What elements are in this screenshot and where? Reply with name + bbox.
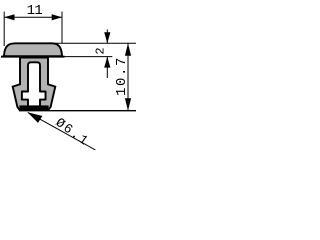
cap top extension line [52,42,136,44]
cap bottom extension line [62,56,112,58]
dimension 11: right extension line [61,12,63,44]
dimension 11: dimension line [4,16,62,18]
dimension 11: left extension line [3,12,5,47]
dimension 10.7: dimension line [127,43,129,110]
rivet cap dome [4,43,62,56]
dimension 11: right arrowhead [52,14,62,20]
dimension 10.7: top arrowhead [125,43,131,56]
dimension 10.7: bottom arrowhead [125,98,131,111]
rivet shank with barbs [13,58,56,110]
rivet cap bottom flange line [1,56,65,58]
dimension 11: left arrowhead [4,14,14,20]
svg-text:11: 11 [27,3,43,19]
svg-text:2: 2 [93,47,107,54]
leader line for diameter [28,112,96,150]
svg-text:10.7: 10.7 [114,56,130,96]
dimension 2: upper leader [106,30,108,44]
dimension 2: lower arrowhead [104,57,110,68]
shank cross-slot cutout [22,62,46,107]
panel surface line [19,110,136,112]
shank bottom web [19,105,48,110]
dimension 2: upper arrowhead [104,32,110,43]
dimension 2: lower leader [106,57,108,78]
leader arrowhead [28,112,43,123]
